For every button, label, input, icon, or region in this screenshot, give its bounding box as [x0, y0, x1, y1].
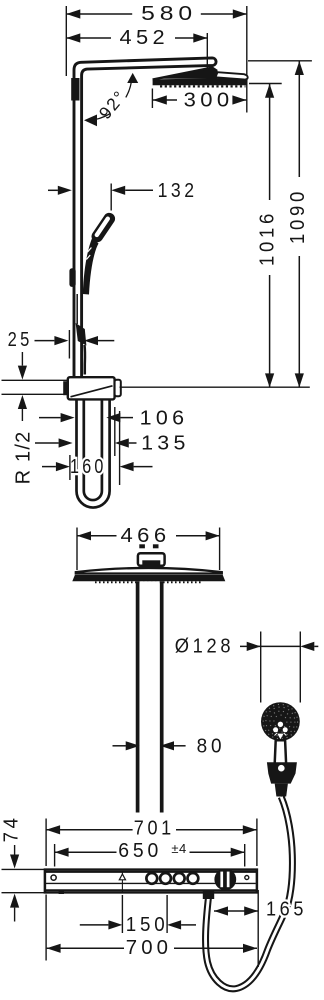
- svg-text:±4: ±4: [171, 841, 186, 856]
- extension line right (head edge): [246, 6, 248, 113]
- handle (front): [275, 740, 287, 768]
- R 1/2 callout: [2, 379, 69, 381]
- dimension 300: [151, 89, 153, 109]
- extension arm top: [248, 60, 312, 62]
- wall extension line: [65, 6, 67, 76]
- holder (front): [267, 762, 297, 783]
- svg-text:R 1/2: R 1/2: [13, 431, 35, 485]
- spray nozzles (side): [160, 85, 246, 87]
- svg-text:Ø128: Ø128: [175, 635, 234, 657]
- face emblem: [278, 722, 283, 727]
- thermostat bar (top view): [45, 870, 257, 893]
- dimension 701: [45, 819, 47, 867]
- dimension 650: [54, 844, 56, 867]
- dimension 1090: [298, 61, 300, 177]
- dimension 452: [66, 37, 111, 39]
- dimension 132: [48, 189, 58, 191]
- dimension 150: [121, 895, 123, 933]
- svg-text:25: 25: [8, 329, 33, 351]
- hose loop below thermostat: [77, 399, 110, 507]
- dimension 466: [76, 528, 78, 571]
- shower hose: [206, 797, 293, 989]
- svg-text:452: 452: [120, 27, 170, 49]
- svg-text:701: 701: [134, 817, 175, 839]
- dimension 160: [42, 466, 56, 468]
- svg-text:1090: 1090: [287, 188, 309, 244]
- overhead shower (front): [76, 568, 222, 574]
- svg-text:580: 580: [141, 3, 197, 25]
- svg-text:650: 650: [118, 840, 162, 862]
- temperature knob: [214, 869, 236, 891]
- svg-text:160: 160: [70, 456, 107, 478]
- overhead connector (front): [139, 544, 145, 548]
- dimension 580: [66, 13, 132, 15]
- svg-text:165: 165: [266, 899, 307, 921]
- centre mark: [121, 872, 123, 893]
- angle dimension 92 degrees: [88, 114, 110, 121]
- svg-text:135: 135: [141, 432, 190, 454]
- svg-text:106: 106: [140, 407, 189, 429]
- hand shower (side): [89, 211, 117, 245]
- extension line 452: [206, 33, 208, 81]
- dimension 165: [214, 910, 258, 912]
- hand shower face: [261, 702, 300, 741]
- dimension 700: [45, 895, 47, 961]
- dimension 80: [113, 745, 126, 747]
- extension lines: [69, 455, 71, 480]
- svg-text:1016: 1016: [257, 210, 279, 266]
- svg-text:700: 700: [126, 937, 172, 959]
- svg-text:150: 150: [126, 914, 169, 936]
- thermostat (side): [63, 381, 68, 395]
- svg-text:300: 300: [184, 89, 234, 111]
- extension line 132: [110, 184, 112, 211]
- dimension 1016: [269, 84, 271, 200]
- fixing tab: [59, 890, 64, 894]
- svg-text:466: 466: [121, 525, 171, 547]
- svg-text:80: 80: [197, 736, 226, 758]
- svg-text:74: 74: [0, 814, 22, 842]
- dimension 106: [39, 417, 61, 419]
- hose outlet: [203, 891, 214, 899]
- svg-text:132: 132: [158, 180, 198, 202]
- dimension 135: [35, 442, 59, 444]
- baseline at thermostat: [120, 386, 310, 388]
- wall bracket: [71, 78, 79, 101]
- shower arm and pipe: [74, 58, 216, 376]
- hand shower hose (side): [76, 294, 78, 324]
- wall bar column (front): [136, 581, 140, 812]
- select buttons: [146, 873, 157, 884]
- extension head bottom: [249, 83, 282, 85]
- hand shower holder on pipe: [69, 268, 75, 287]
- overhead shower head (side): [153, 78, 247, 85]
